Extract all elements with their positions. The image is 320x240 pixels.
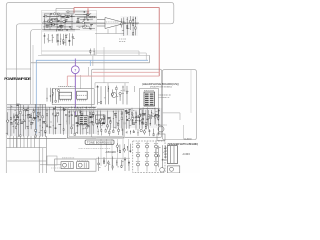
wire band y55.3 [38, 54, 149, 56]
small part x90 y48 [89, 49, 91, 55]
pink stub down [66, 76, 68, 86]
long vertical x39.2 [38, 136, 40, 173]
bottom-left dense cluster [7, 104, 46, 136]
TONE BOARD(US) label box [85, 140, 114, 144]
label blobs bottom-mid [65, 113, 68, 115]
top pre-amp sub-board outline [42, 11, 97, 55]
blue trace [36, 60, 148, 133]
pink trace 1 [93, 71, 160, 73]
wire vertical x88.6 [88, 67, 90, 76]
switch assembly [167, 146, 177, 164]
svg-text:A BOARD: A BOARD [106, 150, 117, 154]
bottom band top wire [7, 104, 46, 106]
small box below [157, 134, 165, 141]
power amp section border [31, 30, 42, 105]
red trace top [74, 8, 159, 77]
transistor circle in box R [158, 126, 164, 132]
top-left amp input cluster [42, 12, 75, 32]
row below pw box [55, 107, 56, 109]
hp IC side text [159, 94, 160, 96]
faint caption below [79, 147, 80, 149]
speaker box inner wire [163, 113, 181, 120]
svg-text:TONE BOARD(US): TONE BOARD(US) [87, 140, 112, 144]
headphone board outline [92, 69, 162, 137]
label blobs bottom-left [15, 118, 18, 120]
label blobs bottom-hp [108, 117, 111, 119]
svg-text:POWER AMP SIDE: POWER AMP SIDE [4, 76, 31, 81]
small box near x47 [47, 156, 57, 165]
blue stub x90.3 [89, 60, 91, 66]
parts above near red [66, 11, 90, 13]
jack circle [160, 168, 165, 173]
svg-text:(HEADPHONE BOARD(US)): (HEADPHONE BOARD(US)) [142, 82, 179, 86]
pin ticks [60, 99, 62, 101]
long vertical x46.3 [45, 136, 47, 173]
red stub x77 [73, 8, 75, 13]
svg-text:AUDIO: AUDIO [184, 138, 192, 141]
bottom band long wires [7, 106, 96, 108]
relay 1 [61, 162, 73, 169]
vertical x42.8 [42, 148, 44, 173]
label blobs top cluster [46, 25, 49, 27]
text above pw box [57, 86, 60, 88]
box R inner vertical [190, 70, 192, 113]
wire vertical x80.3 [79, 75, 81, 89]
board bottom double line [97, 136, 162, 138]
hp left cluster [97, 85, 99, 104]
bottom hp dense cluster [97, 108, 162, 128]
transistor [112, 93, 117, 98]
pink trace 2 [67, 75, 159, 77]
top-mid cluster [75, 13, 97, 31]
left column marks [155, 149, 157, 161]
flag circle 7 [71, 66, 79, 74]
dashed transistor box [133, 141, 165, 173]
tone IC block 2 [96, 115, 105, 123]
speaker wire y161 [7, 160, 46, 162]
vertical wire forest bottom-left continuation [9, 136, 11, 148]
verticals below hp board [100, 139, 102, 166]
cluster below [57, 34, 59, 46]
pw-board box [52, 89, 94, 105]
wire band y62.8 [31, 55, 150, 63]
wire right of tone board [96, 157, 130, 159]
top cluster main wires [43, 16, 96, 18]
connector cluster left of pw box [46, 88, 48, 102]
relay 2 [77, 162, 89, 169]
wire vertical x92.9 [92, 56, 94, 66]
hp IC top label [144, 90, 145, 92]
hp IC outer box [140, 89, 159, 109]
pin ticks on tone ICs [79, 124, 81, 126]
speaker jack box [167, 166, 179, 173]
hp lower marks [131, 108, 133, 125]
svg-text:AUDIO: AUDIO [183, 153, 191, 156]
wire hp inner top [95, 82, 129, 84]
wire hp left column [134, 86, 136, 92]
wire below triangle [95, 26, 124, 34]
top-right cluster [121, 16, 139, 36]
wire y69 left [6, 68, 30, 70]
sheet border frame [6, 2, 174, 173]
bottom mid strip parts [98, 157, 100, 171]
tone feed wire [40, 164, 61, 166]
wire band y51 [42, 51, 140, 55]
svg-text:(SPEAKER SWITCH BOARD): (SPEAKER SWITCH BOARD) [168, 142, 199, 146]
hp IC block [144, 92, 155, 106]
wire vertical x104 [103, 47, 105, 83]
bottom-mid dense cluster [46, 106, 97, 134]
speaker wire y147.5 [6, 147, 46, 149]
op-amp triangle [105, 18, 126, 29]
IC101 [59, 92, 71, 99]
red stub x88 [87, 8, 89, 16]
tone board outline double box [68, 109, 125, 138]
wire band y53 [94, 53, 146, 60]
svg-text:(HEADPHONE BOARD): (HEADPHONE BOARD) [150, 86, 172, 89]
tone board box [55, 159, 96, 171]
wire top feed [56, 8, 74, 13]
purple trace [74, 59, 76, 66]
tone IC block 1 [79, 116, 88, 125]
speaker switch board outline [163, 70, 197, 140]
IC102 [77, 91, 88, 99]
wire vertical x33 [32, 45, 34, 104]
